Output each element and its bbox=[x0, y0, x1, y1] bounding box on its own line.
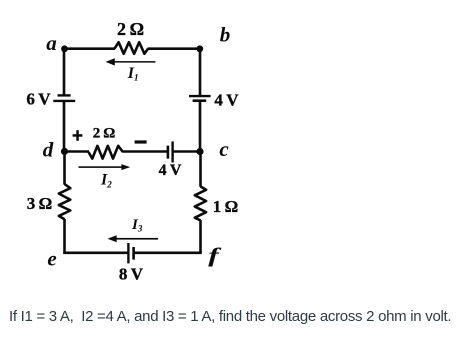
node d bbox=[61, 148, 68, 155]
battery 8V (bottom branch): long plate bbox=[127, 243, 129, 263]
svg-text:f: f bbox=[208, 243, 222, 267]
wire right upper (b to 4V battery) bbox=[199, 47, 202, 95]
battery 4V (right branch): short plate bbox=[193, 99, 207, 102]
battery 4V (middle branch): long plate bbox=[171, 141, 173, 162]
resistor 1Ω (right branch) bbox=[195, 187, 206, 221]
svg-text:2 Ω: 2 Ω bbox=[117, 19, 144, 39]
svg-text:I3: I3 bbox=[131, 217, 143, 234]
wire left lower (d to 3Ω) bbox=[63, 151, 66, 184]
resistor 3Ω (left branch) bbox=[59, 184, 71, 219]
wire top-left (a to resistor) bbox=[64, 47, 115, 50]
battery 6V (left branch): short plate bbox=[58, 94, 71, 96]
wire left bottom (3Ω to e) bbox=[63, 219, 66, 253]
svg-text:c: c bbox=[219, 137, 229, 161]
wire bottom-left (e to 8V battery) bbox=[63, 252, 127, 255]
svg-text:b: b bbox=[220, 23, 231, 47]
svg-text:2 Ω: 2 Ω bbox=[93, 126, 116, 142]
battery 6V: long plate bbox=[53, 100, 75, 102]
svg-text:1 Ω: 1 Ω bbox=[213, 197, 239, 216]
wire right lower (c to 1Ω) bbox=[199, 151, 202, 187]
wire right bottom (1Ω to f) bbox=[199, 220, 202, 253]
svg-text:I2: I2 bbox=[100, 172, 112, 190]
wire right mid (4V battery to c) bbox=[199, 102, 202, 152]
node a bbox=[61, 45, 68, 52]
battery 4V (right branch): long plate bbox=[189, 95, 211, 97]
wire bottom-right (8V battery to f) bbox=[135, 252, 202, 255]
svg-text:e: e bbox=[47, 247, 56, 271]
svg-text:4 V: 4 V bbox=[159, 162, 182, 179]
svg-text:a: a bbox=[46, 31, 57, 55]
svg-text:3 Ω: 3 Ω bbox=[27, 194, 53, 213]
polarity + (middle resistor) bbox=[73, 130, 83, 141]
caption question text bbox=[9, 308, 451, 325]
wire middle-left (d to 2Ω) bbox=[64, 150, 89, 153]
wire middle-right (4V cell to c) bbox=[174, 150, 201, 153]
svg-text:4 V: 4 V bbox=[214, 91, 239, 110]
current arrow I3 (points left) bbox=[108, 235, 159, 242]
resistor 2Ω middle (d-c branch) bbox=[89, 146, 123, 159]
current arrow I1 (points left) bbox=[106, 58, 156, 65]
battery 8V (bottom branch): short plate bbox=[132, 247, 135, 260]
wire left mid (6V battery to d) bbox=[63, 102, 66, 152]
polarity − (middle resistor) bbox=[135, 140, 147, 143]
svg-text:d: d bbox=[43, 138, 54, 162]
node c bbox=[196, 148, 203, 155]
battery 4V (middle branch): short plate bbox=[167, 146, 170, 159]
resistor 2Ω top (a-b branch) bbox=[115, 42, 149, 54]
current arrow I2 (points right) bbox=[79, 164, 131, 170]
node b bbox=[196, 45, 203, 52]
svg-text:8 V: 8 V bbox=[119, 264, 144, 283]
wire top-right (resistor to b) bbox=[148, 47, 201, 50]
wire left upper (a to 6V battery) bbox=[63, 47, 66, 94]
wire middle-mid (2Ω to 4V cell) bbox=[123, 150, 168, 153]
svg-text:6 V: 6 V bbox=[26, 89, 51, 108]
svg-text:I1: I1 bbox=[127, 65, 139, 83]
